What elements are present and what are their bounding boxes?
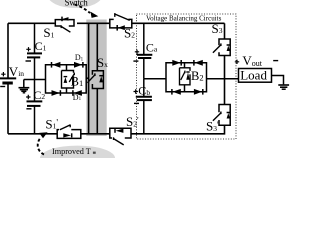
diode bottom-right (points right) — [202, 89, 204, 95]
switch S3' — [206, 79, 230, 134]
capacitor Cb — [134, 79, 152, 134]
capacitor Ca — [133, 23, 158, 79]
ground output — [278, 85, 289, 89]
wire Cab mid to B2 — [144, 78, 166, 80]
svg-text:Improved T: Improved T — [52, 147, 91, 156]
diode D1' bottom-left (points right) — [59, 90, 61, 96]
svg-text:D1': D1' — [73, 93, 82, 102]
switch S1 — [43, 17, 74, 41]
switch S1' — [45, 116, 80, 138]
annotation ellipse Switch — [48, 0, 103, 8]
ground — [19, 80, 30, 93]
bridge frame — [166, 63, 207, 92]
diode top-left (points right) — [180, 60, 182, 66]
diode bridge B1 — [46, 53, 89, 102]
bridge frame — [46, 65, 87, 93]
wire top rail — [8, 22, 225, 24]
switch S2' — [110, 114, 139, 145]
wire left rail top — [7, 23, 9, 78]
wire Sx upper — [96, 23, 98, 71]
diode D1' bottom-right (points left) — [72, 90, 74, 96]
diode D1 top-right (points right) — [82, 62, 84, 68]
diode D1 top-left (points left) — [51, 62, 53, 68]
diode bottom-left (points left) — [171, 89, 173, 95]
wire Sx lower — [96, 89, 98, 134]
wire left rail bottom — [7, 84, 9, 134]
annotation arrow to S1' — [38, 132, 48, 154]
wire bridge top stub — [184, 63, 186, 68]
battery Vin — [0, 64, 24, 87]
highlight band over Sx leg — [86, 20, 106, 137]
wire bridge right to band — [86, 77, 88, 79]
diode bridge B2 — [166, 60, 207, 95]
svg-text:Switch: Switch — [65, 0, 89, 8]
dashed box Voltage Balancing Circuits — [136, 14, 236, 139]
switch S3 — [212, 21, 231, 79]
wire bridge bottom stub — [66, 88, 68, 93]
wire bridge top stub — [66, 65, 68, 71]
wire load to ground — [272, 76, 284, 85]
switch Sx — [87, 55, 108, 89]
label Vout — [235, 53, 278, 68]
diode top-right (points left) — [193, 60, 195, 66]
wire bottom rail — [8, 125, 225, 134]
cell B2 box — [180, 68, 191, 85]
wire bridge bottom stub — [184, 85, 186, 92]
annotation arrow to Sx leg — [75, 5, 99, 18]
svg-text:Load: Load — [240, 67, 267, 82]
wire B2 right to leg and Load — [207, 78, 239, 80]
load box — [239, 67, 272, 82]
wire band-left vertical — [88, 23, 90, 134]
wire mid node — [24, 79, 46, 81]
cell B1 box — [62, 71, 74, 89]
capacitor C1 — [26, 23, 47, 79]
annotation ellipse Improved T — [40, 146, 115, 171]
switch S2 — [110, 13, 135, 40]
svg-text:Voltage Balancing Circuits: Voltage Balancing Circuits — [146, 14, 222, 22]
capacitor C2 — [26, 80, 45, 134]
